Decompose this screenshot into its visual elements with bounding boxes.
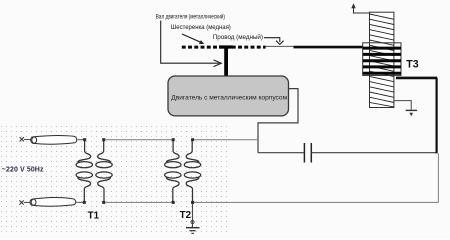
transformer T2 primary winding (left) — [165, 141, 181, 201]
motor M1 body (Двигатель с металлическим корпусом) — [168, 76, 289, 116]
transformer T1 secondary winding (right) — [96, 141, 112, 201]
wire T1 secondary to T2 primary (bottom rail) — [105, 201, 172, 203]
transformer T1 primary winding (left) — [76, 141, 92, 201]
pointer arrow from shaft label to shaft — [161, 21, 222, 67]
fuse F2 (bottom) — [30, 197, 76, 206]
wire — [24, 139, 31, 141]
T3 primary winding (box with thick turns) — [363, 43, 401, 76]
ground at T3 secondary — [394, 101, 417, 117]
pointer arrow from wire label down to copper wire — [264, 38, 284, 45]
svg-text:T2: T2 — [180, 210, 192, 221]
T1 pin nodes — [83, 138, 105, 204]
wire fuse F1 to T1 — [78, 139, 84, 141]
label: wire annotation "Провод (медный)" — [213, 34, 263, 41]
wire T1 secondary to T2 primary (top rail) — [105, 139, 172, 141]
ground at T2 secondary — [186, 204, 200, 234]
T2 pin nodes — [172, 138, 194, 204]
svg-text:Шестеренка (медная): Шестеренка (медная) — [171, 25, 231, 31]
gear dashed line (copper gear teeth) — [182, 46, 266, 49]
svg-text:Двигатель с металлическим корп: Двигатель с металлическим корпусом — [171, 95, 287, 102]
svg-text:Провод (медный): Провод (медный) — [213, 34, 263, 41]
right branch return wire (to bottom rail) — [437, 153, 439, 202]
wire from motor case to drive circuit (right side) — [258, 89, 298, 153]
fuse F1 (top) — [31, 136, 77, 145]
wire from gear to copper wire (thin segment) — [266, 45, 294, 47]
antenna arrow at T3 secondary top — [351, 3, 369, 13]
copper wire thick segment to T3 primary — [294, 46, 363, 49]
mains input terminal x (top) — [20, 137, 24, 141]
mains input terminal x (bottom) — [19, 200, 23, 204]
wire — [24, 202, 30, 204]
wire from capacitor to T3 branch — [311, 152, 437, 154]
svg-text:T1: T1 — [88, 210, 100, 221]
T3 secondary winding (tall hatched coil) — [370, 12, 394, 107]
svg-text:Вал двигателя (металлический): Вал двигателя (металлический) — [156, 13, 225, 20]
capacitor C1 — [304, 143, 311, 163]
svg-text:~220 V 50Hz: ~220 V 50Hz — [2, 166, 44, 173]
wire T2 secondary to drive node (top rail) — [194, 139, 258, 141]
wire T3 primary to right branch (thick) — [396, 78, 437, 153]
motor shaft (thick vertical bar with cap) — [219, 45, 233, 75]
bottom rail wire from T2 to right branch — [194, 201, 438, 203]
svg-text:T3: T3 — [406, 59, 418, 71]
label: shaft annotation "Вал двигателя (металлический)" — [156, 13, 225, 20]
wire fuse F2 to T1 — [77, 201, 83, 203]
label: gear annotation "Шестеренка (медная)" — [171, 25, 231, 31]
transformer T2 secondary winding (right) — [184, 141, 200, 201]
pointer arrow from gear label to dashed gear line — [182, 34, 204, 44]
wire node to capacitor — [258, 152, 304, 154]
